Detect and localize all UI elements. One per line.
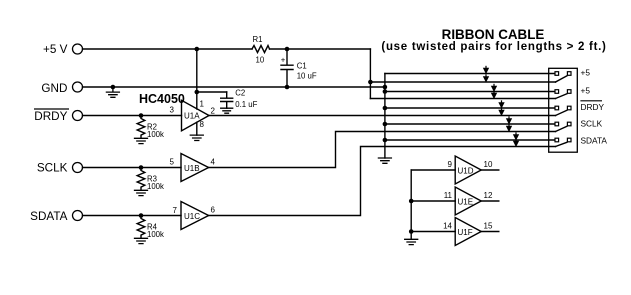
node SDATA terminal <box>73 211 83 221</box>
wire U1A Vcc pin1 <box>196 49 198 109</box>
svg-text:DRDY: DRDY <box>34 110 67 123</box>
node SCLK terminal <box>73 163 83 173</box>
ground on GND rail <box>106 87 119 97</box>
svg-text:C2: C2 <box>235 89 245 98</box>
svg-text:+: + <box>281 56 286 65</box>
ground under U1A <box>190 135 203 140</box>
wire SCLK buffered <box>209 132 556 168</box>
ground under bus <box>378 158 391 163</box>
wire R1 to corner <box>270 48 371 50</box>
svg-text:5: 5 <box>170 158 175 167</box>
svg-text:U1F: U1F <box>458 228 473 237</box>
pair4 arrows <box>507 116 511 131</box>
svg-text:SCLK: SCLK <box>37 162 68 175</box>
connector row2 pins <box>555 90 559 94</box>
svg-text:U1C: U1C <box>184 212 200 221</box>
wire U1E input <box>411 200 455 202</box>
capacitor C2 <box>221 92 233 108</box>
svg-text:100k: 100k <box>147 130 164 139</box>
svg-text:10 uF: 10 uF <box>297 71 317 80</box>
svg-text:9: 9 <box>448 160 453 169</box>
svg-text:3: 3 <box>170 106 175 115</box>
resistor R4 <box>137 216 145 239</box>
op-amp U1C <box>181 202 209 230</box>
wire +5V rail <box>83 48 253 50</box>
wire gnd pair5 <box>385 139 555 141</box>
ground under R2 <box>135 138 148 143</box>
ground under R4 <box>135 238 148 243</box>
pair3 arrows <box>499 100 503 115</box>
wire +5 pair2 signal <box>370 98 555 100</box>
wire DRDY input <box>83 115 182 117</box>
connector row3 pins <box>555 106 559 110</box>
svg-text:GND: GND <box>41 82 67 95</box>
pair1 arrows <box>484 66 488 82</box>
svg-text:U1A: U1A <box>184 112 200 121</box>
ground under R3 <box>135 190 148 195</box>
pair2 arrows <box>492 84 496 98</box>
wire SCLK input <box>83 167 182 169</box>
wire gnd pair3 <box>385 107 555 109</box>
connector row5 pins <box>555 138 559 142</box>
svg-text:DRDY: DRDY <box>581 102 605 112</box>
svg-text:U1B: U1B <box>184 164 200 173</box>
op-amp U1A <box>182 100 210 131</box>
wire GND rail <box>83 86 385 88</box>
ground under tie <box>405 239 418 244</box>
svg-text:100k: 100k <box>147 230 164 239</box>
wire DRDY buffered <box>209 115 556 117</box>
node +5V terminal <box>73 44 83 54</box>
svg-text:7: 7 <box>173 206 178 215</box>
svg-text:100k: 100k <box>147 182 164 191</box>
wire U1D output <box>481 169 499 171</box>
node DRDY terminal <box>73 111 83 121</box>
svg-text:12: 12 <box>484 191 493 200</box>
wire gnd pair2 <box>385 91 555 93</box>
wire +5V vertical feed <box>369 49 371 99</box>
svg-text:C1: C1 <box>297 62 307 71</box>
svg-text:R1: R1 <box>253 35 263 44</box>
svg-text:(use twisted pairs for lengths: (use twisted pairs for lengths > 2 ft.) <box>381 41 606 53</box>
capacitor C1 <box>281 49 293 87</box>
wire gnd pair4 <box>385 123 555 125</box>
wire SDATA input <box>83 215 182 217</box>
svg-text:11: 11 <box>444 191 453 200</box>
svg-text:+5: +5 <box>581 68 591 78</box>
svg-text:10: 10 <box>484 160 493 169</box>
wire unused-input tie <box>410 170 412 239</box>
svg-text:SCLK: SCLK <box>581 119 603 129</box>
svg-text:+5: +5 <box>581 86 591 96</box>
resistor R1 <box>252 46 270 53</box>
svg-text:15: 15 <box>484 222 493 231</box>
svg-text:1: 1 <box>200 100 205 109</box>
resistor R2 <box>137 116 145 139</box>
svg-text:HC4050: HC4050 <box>139 92 185 106</box>
ground under C2 <box>221 108 233 113</box>
svg-text:0.1 uF: 0.1 uF <box>235 100 257 109</box>
svg-text:8: 8 <box>200 120 205 129</box>
svg-text:4: 4 <box>211 158 216 167</box>
svg-text:SDATA: SDATA <box>581 136 608 146</box>
wire ground bus <box>384 74 386 159</box>
op-amp U1D <box>455 156 481 184</box>
op-amp U1F <box>455 218 481 246</box>
wire U1F output <box>481 231 499 233</box>
resistor R3 <box>137 168 145 191</box>
svg-text:RIBBON CABLE: RIBBON CABLE <box>442 27 545 42</box>
wire C2 tap <box>197 91 227 93</box>
wire U1E output <box>481 200 499 202</box>
wire gnd pair1 <box>385 73 555 75</box>
svg-text:U1E: U1E <box>458 197 474 206</box>
svg-text:2: 2 <box>211 107 216 116</box>
svg-text:SDATA: SDATA <box>30 210 67 223</box>
op-amp U1B <box>181 154 209 182</box>
svg-text:10: 10 <box>256 55 265 64</box>
twisted pair arrows <box>484 66 518 146</box>
connector row1 pins <box>555 72 559 76</box>
svg-text:+5 V: +5 V <box>43 43 68 56</box>
wire SDATA buffered <box>209 147 556 216</box>
connector J1 box <box>549 68 578 152</box>
connector row4 pins <box>555 122 559 126</box>
pair5 arrows <box>514 132 518 146</box>
wire U1A pin8 <box>196 122 198 135</box>
wire U1D input <box>411 169 455 171</box>
wire +5 pair1 signal <box>370 81 555 83</box>
node GND terminal <box>73 82 83 92</box>
svg-text:U1D: U1D <box>458 166 474 175</box>
svg-text:14: 14 <box>443 222 452 231</box>
op-amp U1E <box>455 187 481 215</box>
svg-text:6: 6 <box>211 206 216 215</box>
wire U1F input <box>411 231 455 233</box>
